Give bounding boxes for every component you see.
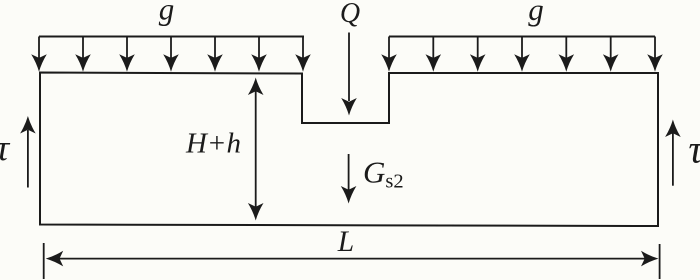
shear arrow tau right bbox=[665, 120, 681, 186]
load arrow gL6 bbox=[251, 37, 267, 72]
load arrow gR1 bbox=[381, 37, 397, 72]
svg-text:Gs2: Gs2 bbox=[363, 155, 404, 193]
dimension tick right bbox=[659, 244, 661, 279]
load arrow gR7 bbox=[647, 37, 663, 72]
svg-text:H+h: H+h bbox=[185, 128, 241, 160]
svg-text:g: g bbox=[159, 0, 175, 26]
dimension arrow L (double headed) bbox=[46, 251, 659, 267]
load arrow gL7 bbox=[295, 37, 311, 72]
load arrow gR6 bbox=[603, 37, 619, 72]
svg-text:L: L bbox=[337, 226, 354, 258]
load arrow Q bbox=[341, 33, 357, 116]
dimension arrow H+h (double headed) bbox=[248, 78, 264, 221]
svg-text:τ: τ bbox=[688, 127, 700, 172]
weight arrow Gs2 bbox=[341, 154, 357, 204]
distributed load line right bbox=[389, 36, 655, 38]
distributed load line left bbox=[39, 36, 304, 38]
shear arrow tau left bbox=[20, 116, 36, 188]
load arrow gL3 bbox=[119, 37, 135, 72]
load arrow gL2 bbox=[75, 37, 91, 72]
load arrow gR4 bbox=[514, 37, 530, 72]
load arrow gR5 bbox=[559, 37, 575, 72]
dimension tick left bbox=[43, 243, 45, 279]
load arrow gL1 bbox=[31, 37, 47, 72]
load arrow gR2 bbox=[426, 37, 442, 72]
load arrow gR3 bbox=[470, 37, 486, 72]
svg-text:Q: Q bbox=[340, 0, 360, 29]
svg-text:g: g bbox=[528, 0, 544, 27]
svg-text:τ: τ bbox=[0, 128, 11, 169]
beam body outline with center notch bbox=[40, 73, 658, 227]
load arrow gL5 bbox=[207, 37, 223, 72]
load arrow gL4 bbox=[163, 37, 179, 72]
